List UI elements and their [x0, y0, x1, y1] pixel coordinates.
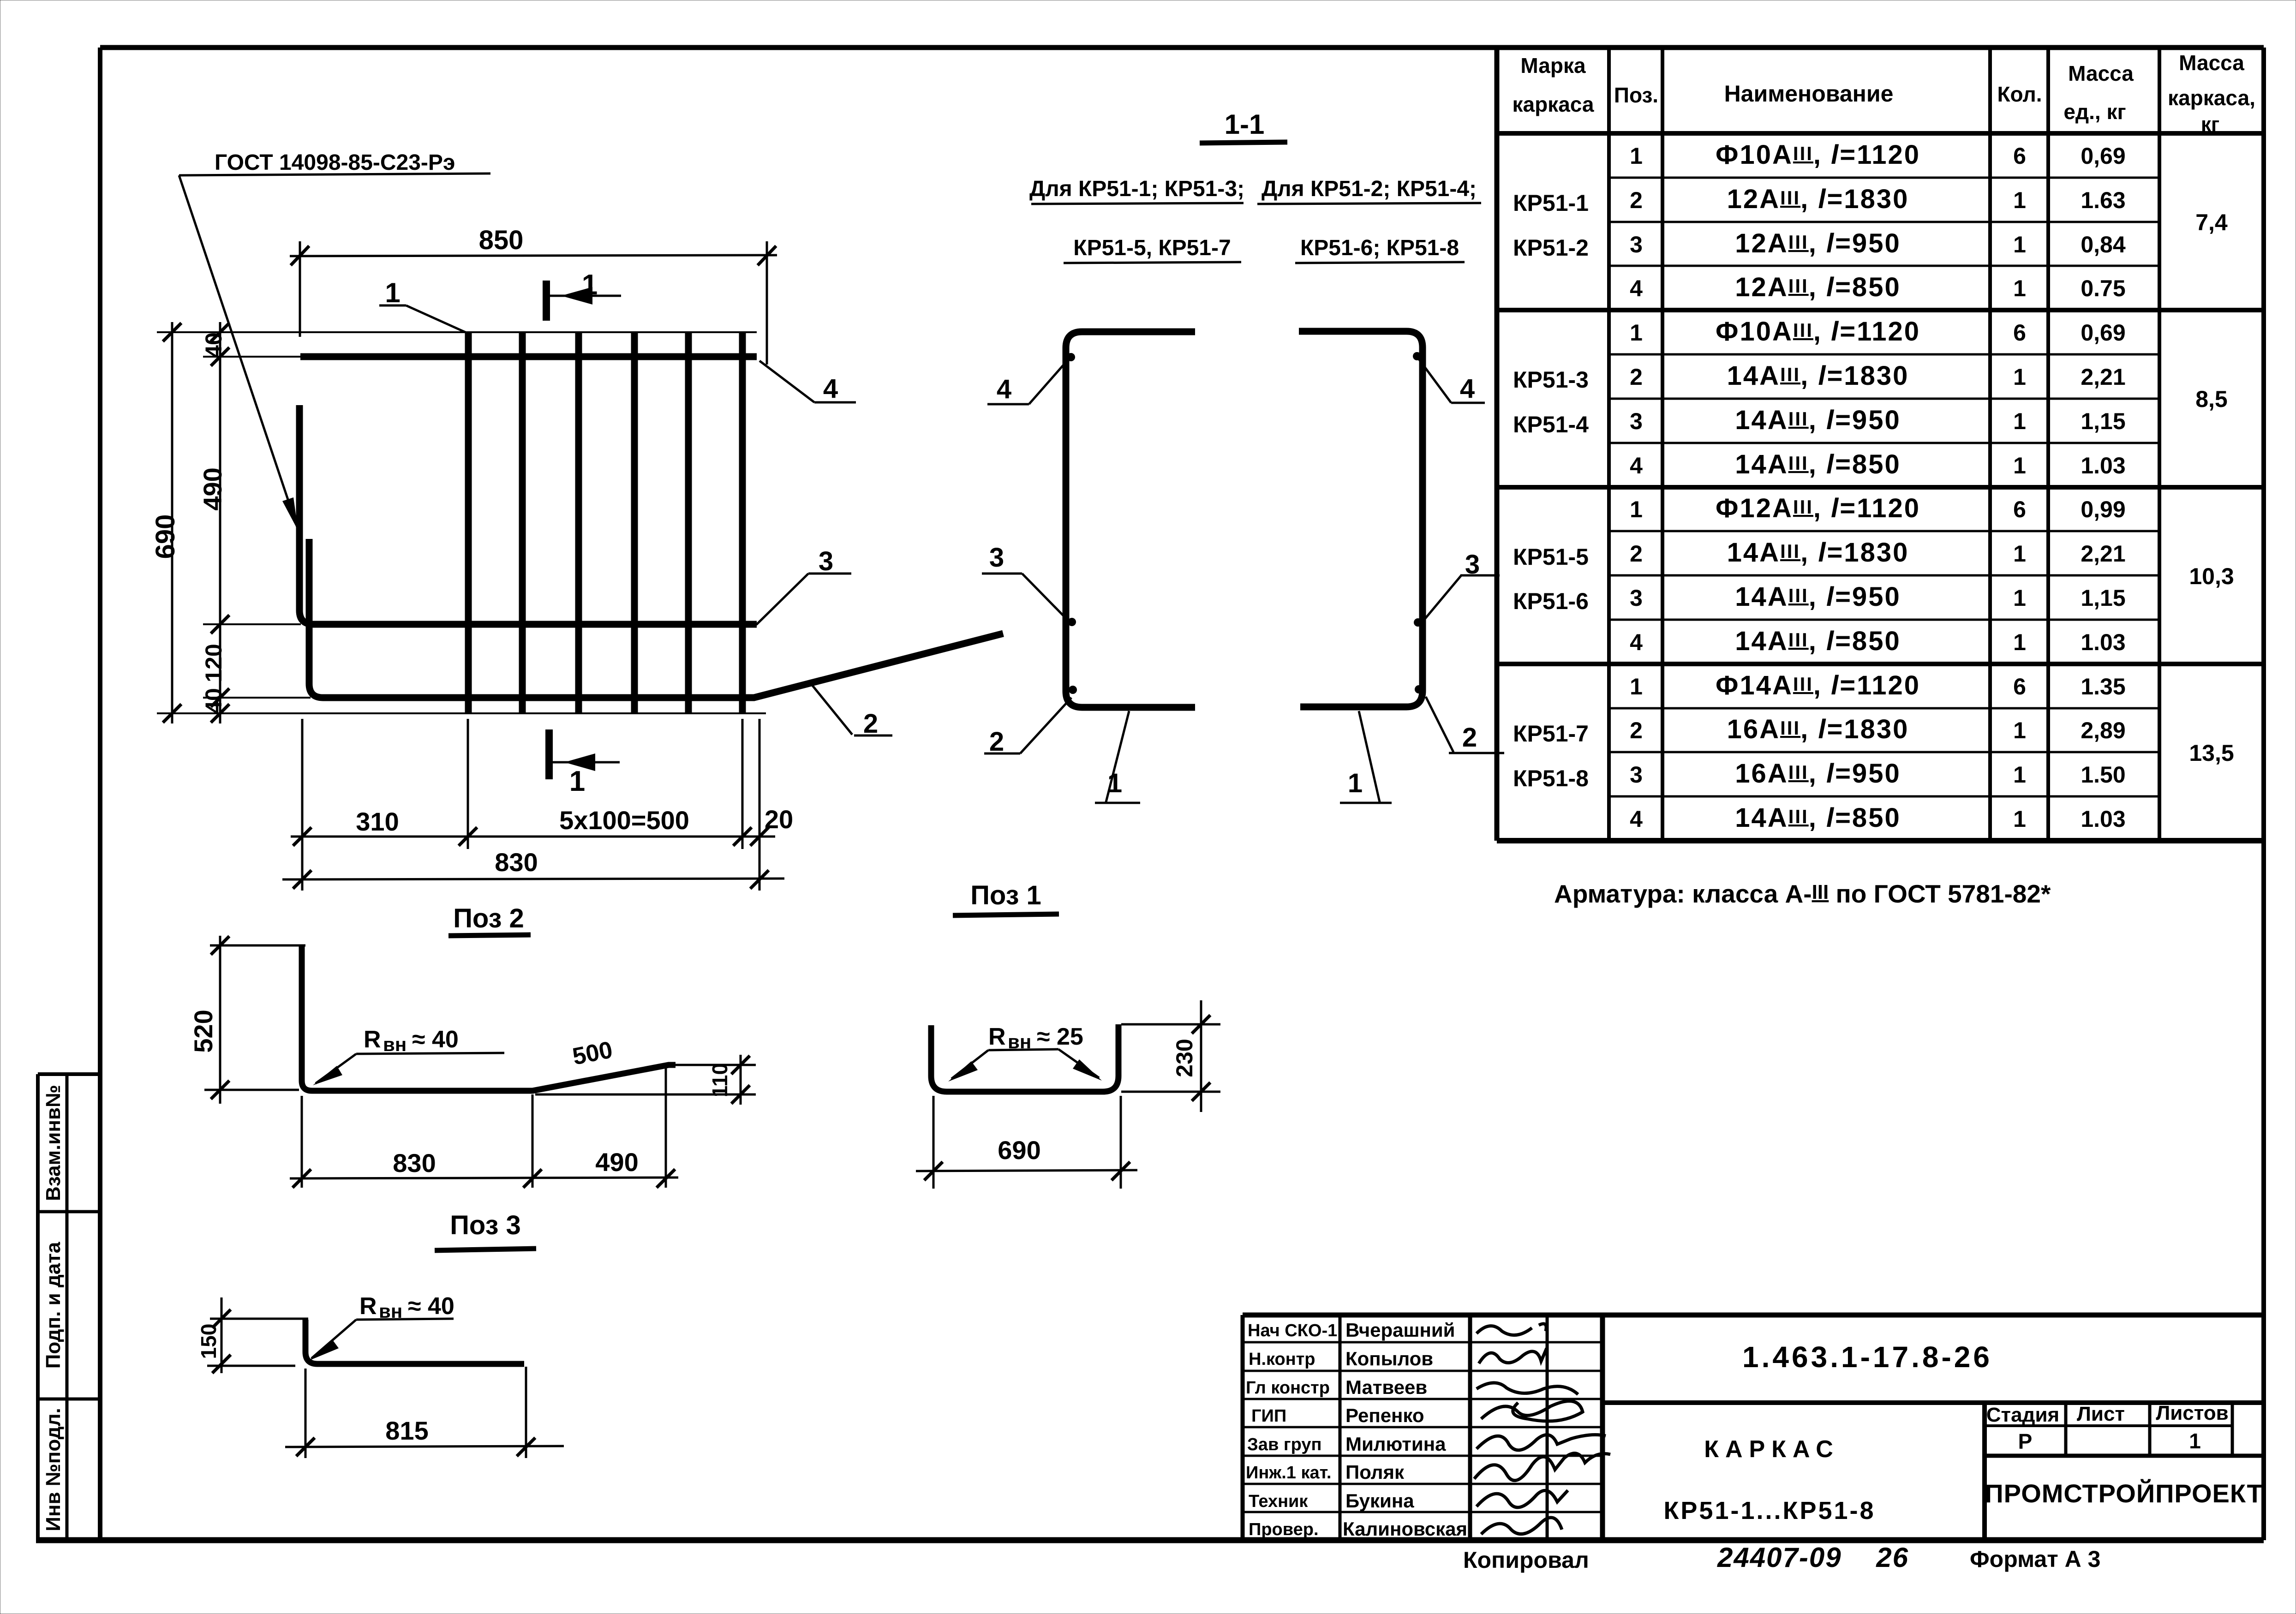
- svg-text:1: 1: [2013, 187, 2026, 213]
- svg-text:1: 1: [2013, 762, 2026, 788]
- svg-text:Ф12АIII, l=1120: Ф12АIII, l=1120: [1716, 493, 1920, 523]
- svg-text:Гл констр: Гл констр: [1246, 1378, 1330, 1398]
- svg-text:КР51-2: КР51-2: [1513, 235, 1589, 261]
- rebar pos2 bent bar: [309, 539, 1003, 698]
- svg-text:2: 2: [1630, 187, 1643, 213]
- svg-text:8,5: 8,5: [2195, 386, 2228, 412]
- border top: [100, 45, 2264, 50]
- svg-text:7,4: 7,4: [2195, 209, 2228, 235]
- svg-text:КР51-3: КР51-3: [1513, 367, 1589, 393]
- svg-text:ГИП: ГИП: [1251, 1406, 1286, 1426]
- rebar pos1 vertical 3: [575, 332, 582, 714]
- svg-text:Матвеев: Матвеев: [1345, 1376, 1427, 1398]
- stadia grid: [1985, 1424, 2232, 1427]
- svg-text:Ф10АIII, l=1120: Ф10АIII, l=1120: [1716, 140, 1920, 170]
- svg-text:3: 3: [1630, 232, 1643, 257]
- svg-text:каркаса: каркаса: [1512, 92, 1594, 116]
- svg-text:Зав груп: Зав груп: [1247, 1435, 1321, 1454]
- svg-text:0.75: 0.75: [2081, 275, 2125, 301]
- signature names: [1343, 1319, 1467, 1540]
- doc number box line: [1602, 1400, 2264, 1405]
- svg-text:4: 4: [1630, 275, 1643, 301]
- border left: [98, 48, 102, 1540]
- svg-text:2: 2: [1630, 717, 1643, 743]
- svg-text:14АIII, l=1830: 14АIII, l=1830: [1727, 538, 1909, 568]
- svg-text:6: 6: [2013, 496, 2026, 522]
- svg-text:830: 830: [393, 1148, 436, 1178]
- svg-text:20: 20: [765, 805, 793, 834]
- svg-text:6: 6: [2013, 320, 2026, 346]
- svg-text:1.03: 1.03: [2081, 453, 2125, 478]
- PLAN: [150, 150, 1003, 891]
- svg-text:вн: вн: [383, 1034, 407, 1055]
- pos1 dim 230: [1121, 1023, 1220, 1026]
- svg-text:Провер.: Провер.: [1249, 1520, 1319, 1539]
- svg-text:1: 1: [2013, 275, 2026, 301]
- svg-text:150: 150: [197, 1324, 221, 1359]
- svg-text:Милютина: Милютина: [1345, 1433, 1446, 1455]
- svg-text:Масса: Масса: [2179, 51, 2244, 75]
- svg-text:1: 1: [385, 277, 400, 308]
- pos3 dim 815: [285, 1446, 564, 1447]
- svg-text:2: 2: [1630, 364, 1643, 390]
- NOTE: [1554, 879, 2051, 908]
- svg-text:0,69: 0,69: [2081, 320, 2125, 346]
- svg-text:500: 500: [570, 1036, 615, 1070]
- svg-text:1: 1: [1630, 496, 1643, 522]
- POS-SKETCHES: [189, 880, 1220, 1458]
- svg-text:40: 40: [201, 688, 227, 714]
- svg-text:КР51-5: КР51-5: [1513, 544, 1589, 570]
- channel right: [1299, 331, 1423, 707]
- svg-text:2,21: 2,21: [2081, 364, 2125, 390]
- plan top edge line: [157, 331, 757, 333]
- svg-text:Репенко: Репенко: [1345, 1405, 1424, 1426]
- svg-text:830: 830: [495, 848, 538, 877]
- svg-text:4: 4: [1630, 629, 1643, 655]
- svg-text:12АIII, l=1830: 12АIII, l=1830: [1727, 184, 1909, 214]
- svg-text:13,5: 13,5: [2189, 740, 2234, 766]
- svg-text:12АIII, l=850: 12АIII, l=850: [1735, 272, 1901, 302]
- svg-text:КАРКАС: КАРКАС: [1704, 1436, 1840, 1463]
- svg-text:1.63: 1.63: [2081, 187, 2125, 213]
- svg-text:Кол.: Кол.: [1997, 82, 2042, 106]
- svg-text:2: 2: [989, 727, 1004, 757]
- pos2 dim 110: [667, 1064, 756, 1066]
- svg-text:1: 1: [2013, 364, 2026, 390]
- pos2 bottom dims 830 490: [290, 1178, 678, 1178]
- svg-text:Формат А 3: Формат А 3: [1970, 1546, 2100, 1572]
- svg-text:690: 690: [150, 514, 180, 559]
- svg-text:Вчерашний: Вчерашний: [1345, 1319, 1455, 1341]
- svg-text:Букина: Букина: [1345, 1490, 1414, 1512]
- svg-text:40: 40: [201, 332, 227, 358]
- channel right dot bottom: [1415, 685, 1423, 693]
- svg-text:110: 110: [708, 1063, 732, 1097]
- svg-text:Наименование: Наименование: [1724, 81, 1894, 107]
- svg-text:1: 1: [1630, 143, 1643, 169]
- svg-text:Лист: Лист: [2077, 1403, 2125, 1425]
- titleblock top line: [1243, 1313, 2264, 1318]
- svg-text:Подп. и дата: Подп. и дата: [42, 1242, 65, 1369]
- dim col 40/490/120/40 line: [219, 322, 221, 723]
- svg-text:Копылов: Копылов: [1345, 1348, 1433, 1369]
- svg-text:КР51-7: КР51-7: [1513, 721, 1589, 747]
- svg-text:310: 310: [356, 807, 399, 836]
- stamp divider 1: [38, 1210, 100, 1213]
- signature labels: [1246, 1321, 1337, 1539]
- svg-text:3: 3: [989, 543, 1004, 573]
- svg-text:Инж.1 кат.: Инж.1 кат.: [1246, 1463, 1331, 1482]
- pos2 bar shape: [302, 945, 676, 1091]
- channel left dot bottom: [1069, 686, 1077, 694]
- svg-text:Калиновская: Калиновская: [1343, 1518, 1467, 1540]
- svg-text:КР51-4: КР51-4: [1513, 412, 1589, 437]
- svg-text:0,69: 0,69: [2081, 143, 2125, 169]
- svg-text:24407-09 26: 24407-09 26: [1717, 1542, 1909, 1573]
- LEFT-STAMP: [38, 1074, 100, 1540]
- svg-text:1: 1: [2013, 717, 2026, 743]
- svg-text:Поз 2: Поз 2: [453, 903, 524, 933]
- svg-text:каркаса,: каркаса,: [2168, 86, 2255, 110]
- gost underline: [179, 173, 490, 175]
- ext line y773: [203, 356, 302, 358]
- svg-text:Поз 3: Поз 3: [450, 1210, 521, 1240]
- svg-text:КР51-5, КР51-7: КР51-5, КР51-7: [1073, 236, 1231, 260]
- signature rows: [1243, 1341, 1602, 1344]
- svg-text:14АIII, l=850: 14АIII, l=850: [1735, 803, 1901, 833]
- svg-text:2,89: 2,89: [2081, 717, 2125, 743]
- signature box frame: [1241, 1315, 1245, 1540]
- svg-text:520: 520: [189, 1010, 218, 1052]
- SECTION: [982, 109, 1504, 803]
- svg-text:ед., кг: ед., кг: [2063, 100, 2126, 124]
- svg-text:16АIII, l=950: 16АIII, l=950: [1735, 759, 1901, 789]
- svg-text:4: 4: [1630, 453, 1643, 478]
- svg-text:Ф14АIII, l=1120: Ф14АIII, l=1120: [1716, 670, 1920, 700]
- rebar pos4 top bar: [300, 353, 757, 360]
- bottom dim line2 830: [282, 879, 784, 879]
- pos2 dim 520: [219, 936, 221, 1104]
- svg-text:1.03: 1.03: [2081, 806, 2125, 832]
- svg-text:0,99: 0,99: [2081, 496, 2125, 522]
- svg-text:3: 3: [1630, 762, 1643, 788]
- channel left dot mid: [1068, 618, 1076, 626]
- svg-text:0,84: 0,84: [2081, 232, 2126, 257]
- svg-text:12АIII, l=950: 12АIII, l=950: [1735, 228, 1901, 258]
- svg-text:Стадия: Стадия: [1986, 1404, 2059, 1426]
- svg-text:815: 815: [385, 1416, 428, 1445]
- svg-text:230: 230: [1172, 1039, 1197, 1077]
- svg-text:1-1: 1-1: [1225, 109, 1265, 140]
- svg-text:Нач СКО-1: Нач СКО-1: [1248, 1321, 1337, 1340]
- svg-text:Р: Р: [2018, 1429, 2033, 1453]
- svg-text:4: 4: [1460, 374, 1475, 404]
- rebar pos1 vertical 4: [631, 332, 638, 714]
- svg-text:690: 690: [998, 1136, 1040, 1165]
- svg-text:5х100=500: 5х100=500: [559, 806, 689, 835]
- svg-text:Листов: Листов: [2156, 1402, 2228, 1424]
- svg-text:1: 1: [2013, 453, 2026, 478]
- svg-text:2: 2: [1630, 541, 1643, 567]
- svg-text:1: 1: [2013, 408, 2026, 434]
- channel right dot top: [1413, 352, 1421, 360]
- svg-text:R: R: [359, 1293, 377, 1320]
- pos3 bar shape: [305, 1320, 524, 1364]
- gost leader arrow: [179, 175, 298, 530]
- svg-text:≈ 40: ≈ 40: [412, 1026, 459, 1053]
- svg-text:1,15: 1,15: [2081, 408, 2125, 434]
- svg-text:Техник: Техник: [1249, 1492, 1308, 1511]
- svg-text:2: 2: [863, 709, 878, 739]
- svg-text:Арматура: класса А-III по ГОСТ: Арматура: класса А-III по ГОСТ 5781-82*: [1554, 879, 2051, 908]
- svg-text:1: 1: [569, 765, 585, 797]
- stamp frame: [36, 1074, 40, 1540]
- svg-text:4: 4: [1630, 806, 1643, 832]
- svg-text:Масса: Масса: [2068, 61, 2134, 85]
- table grid: [1497, 48, 2264, 841]
- svg-text:850: 850: [479, 225, 524, 255]
- svg-text:1: 1: [1630, 320, 1643, 346]
- svg-text:1.50: 1.50: [2081, 762, 2125, 788]
- svg-text:1: 1: [2013, 585, 2026, 611]
- border bottom: [36, 1537, 2264, 1543]
- svg-text:16АIII, l=1830: 16АIII, l=1830: [1727, 714, 1909, 744]
- svg-text:КР51-6: КР51-6: [1513, 588, 1589, 614]
- channel right dot mid: [1414, 618, 1422, 627]
- svg-text:14АIII, l=950: 14АIII, l=950: [1735, 405, 1901, 435]
- rebar pos1 vertical 6: [739, 332, 746, 714]
- dim 850 line: [290, 255, 777, 256]
- svg-text:1.463.1-17.8-26: 1.463.1-17.8-26: [1742, 1340, 1992, 1374]
- table header: [1512, 51, 2255, 136]
- svg-text:Инв №подл.: Инв №подл.: [42, 1408, 65, 1531]
- pos3 dim 150: [221, 1297, 223, 1373]
- svg-text:кг: кг: [2201, 113, 2219, 136]
- svg-text:1: 1: [582, 269, 598, 301]
- rebar pos1 vertical 2: [519, 332, 526, 714]
- svg-text:14АIII, l=1830: 14АIII, l=1830: [1727, 361, 1909, 391]
- svg-text:490: 490: [595, 1148, 638, 1177]
- svg-text:ПРОМСТРОЙПРОЕКТ: ПРОМСТРОЙПРОЕКТ: [1985, 1479, 2263, 1508]
- svg-text:КР51-1...КР51-8: КР51-1...КР51-8: [1663, 1497, 1875, 1524]
- svg-text:10,3: 10,3: [2189, 563, 2234, 589]
- svg-text:Копировал: Копировал: [1463, 1547, 1589, 1573]
- svg-text:6: 6: [2013, 143, 2026, 169]
- svg-text:R: R: [364, 1026, 381, 1053]
- bottom dim line1 310/500/20: [291, 836, 775, 838]
- channel left: [1066, 332, 1195, 707]
- ext line y1353: [203, 623, 301, 625]
- svg-text:Поляк: Поляк: [1345, 1461, 1405, 1483]
- svg-text:Поз.: Поз.: [1614, 83, 1658, 107]
- rebar pos1 vertical 1: [465, 332, 472, 714]
- svg-text:Для КР51-2; КР51-4;: Для КР51-2; КР51-4;: [1262, 177, 1477, 201]
- svg-text:3: 3: [1630, 408, 1643, 434]
- svg-text:КР51-6; КР51-8: КР51-6; КР51-8: [1300, 236, 1459, 260]
- svg-text:14АIII, l=950: 14АIII, l=950: [1735, 582, 1901, 612]
- rebar pos3 bent bar: [299, 405, 757, 624]
- svg-text:Ф10АIII, l=1120: Ф10АIII, l=1120: [1716, 317, 1920, 347]
- svg-text:КР51-8: КР51-8: [1513, 765, 1589, 791]
- border right: [2261, 48, 2266, 1540]
- svg-text:1: 1: [1348, 768, 1363, 798]
- table body: [1513, 140, 2234, 833]
- svg-text:Марка: Марка: [1520, 54, 1586, 78]
- svg-text:1: 1: [2013, 806, 2026, 832]
- svg-text:1: 1: [1630, 674, 1643, 699]
- TABLE: [1497, 48, 2264, 841]
- svg-text:4: 4: [997, 374, 1011, 404]
- svg-text:Н.контр: Н.контр: [1249, 1350, 1315, 1369]
- svg-text:1,15: 1,15: [2081, 585, 2125, 611]
- svg-text:14АIII, l=850: 14АIII, l=850: [1735, 626, 1901, 656]
- ext line y1512: [203, 697, 311, 699]
- svg-text:4: 4: [823, 374, 838, 404]
- svg-text:R: R: [988, 1023, 1006, 1050]
- svg-text:1.03: 1.03: [2081, 629, 2125, 655]
- svg-text:1: 1: [2013, 541, 2026, 567]
- svg-text:≈ 25: ≈ 25: [1037, 1023, 1083, 1050]
- rebar pos1 vertical 5: [685, 332, 692, 714]
- svg-text:1: 1: [2189, 1429, 2201, 1453]
- kardas divider: [1982, 1403, 1987, 1540]
- svg-text:Для КР51-1; КР51-3;: Для КР51-1; КР51-3;: [1029, 177, 1244, 201]
- pos1 dim 690: [916, 1170, 1137, 1171]
- svg-text:3: 3: [819, 546, 833, 576]
- svg-text:Взам.инв№: Взам.инв№: [42, 1085, 65, 1201]
- svg-text:КР51-1: КР51-1: [1513, 190, 1589, 216]
- svg-text:6: 6: [2013, 674, 2026, 699]
- svg-text:≈ 40: ≈ 40: [408, 1293, 454, 1320]
- svg-text:1: 1: [2013, 232, 2026, 257]
- svg-text:490: 490: [198, 467, 227, 510]
- TITLE-BLOCK: [1243, 1315, 2264, 1573]
- svg-text:Поз 1: Поз 1: [970, 880, 1041, 910]
- channel left dot top: [1067, 353, 1075, 361]
- svg-text:14АIII, l=850: 14АIII, l=850: [1735, 449, 1901, 479]
- stamp divider 2: [38, 1398, 100, 1401]
- svg-text:2,21: 2,21: [2081, 541, 2125, 567]
- section cut mark top: [543, 281, 550, 321]
- svg-text:3: 3: [1630, 585, 1643, 611]
- section cut mark bottom: [545, 729, 553, 779]
- svg-text:120: 120: [201, 644, 227, 682]
- svg-text:2: 2: [1462, 723, 1477, 753]
- pos1 bar shape: [931, 1024, 1118, 1092]
- svg-text:ГОСТ 14098-85-С23-Рэ: ГОСТ 14098-85-С23-Рэ: [215, 150, 455, 175]
- plan bottom edge line: [157, 712, 766, 714]
- dim 690 line: [171, 322, 173, 723]
- svg-text:1.35: 1.35: [2081, 674, 2125, 699]
- svg-text:1: 1: [2013, 629, 2026, 655]
- signatures squiggles: [1474, 1324, 1610, 1534]
